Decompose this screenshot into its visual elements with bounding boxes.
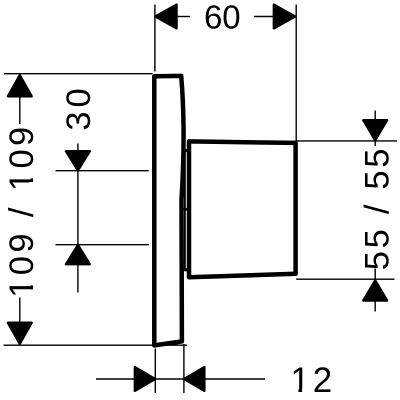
dim line 30 top tail: [77, 144, 79, 153]
sleeve top edge: [182, 149, 189, 152]
sleeve mid joint: [182, 208, 189, 211]
ext line 30 bottom: [56, 244, 149, 246]
ext line 12 right: [183, 344, 185, 393]
arrow 60 left (points left): [156, 5, 177, 29]
svg-text:12: 12: [290, 361, 335, 400]
dim line 55 top tail: [374, 111, 376, 122]
ext line 55 bottom: [296, 278, 394, 280]
dim line 109 lower segment: [19, 298, 21, 323]
serif masks to mimic plain-stem "1" glyphs: [30, 172, 309, 393]
ext line 109 top: [4, 73, 153, 75]
dim line 55 lower segment: [374, 269, 376, 280]
arrow 30 bottom (points up, below ext line): [66, 245, 90, 264]
arrow 12 left (points right): [135, 367, 155, 391]
ext line 60 left: [154, 5, 156, 72]
knob / handle (side view): [189, 141, 296, 277]
dim line 12: [96, 378, 265, 380]
escutcheon plate (side view): [154, 76, 183, 346]
svg-text:109 / 109: 109 / 109: [3, 123, 41, 297]
dim line 109 upper segment: [19, 96, 21, 125]
ext line 55 top: [296, 140, 397, 142]
ext line 60 right: [295, 5, 297, 142]
dim line 30 bottom tail: [77, 263, 79, 293]
svg-text:60: 60: [204, 0, 241, 35]
arrow 109 top (points up): [8, 75, 32, 96]
sleeve left edge: [184, 151, 186, 270]
dim line 60 left tail: [176, 16, 190, 18]
arrow 30 top (points down, above ext line): [66, 151, 90, 170]
svg-text:55 / 55: 55 / 55: [358, 146, 396, 270]
arrow 109 bottom (points down): [8, 323, 32, 344]
sleeve between plate and knob: [182, 151, 189, 270]
arrow 12 right (points left): [184, 367, 204, 391]
ext line 30 top: [56, 170, 149, 172]
ext line 12 left: [154, 349, 156, 394]
dim line 55 bottom tail: [374, 301, 376, 312]
sleeve bottom edge: [182, 268, 189, 271]
arrow 55 bottom (points up, below ext line): [363, 281, 387, 301]
dim line 55 upper segment: [374, 141, 376, 146]
arrow 55 top (points down, above ext line): [363, 120, 387, 140]
dim line 30 middle: [77, 171, 79, 245]
ext line 109 bottom: [4, 344, 188, 346]
arrow 60 right (points right): [274, 5, 295, 29]
dim line 60 right tail: [254, 16, 275, 18]
svg-text:30: 30: [60, 84, 98, 130]
